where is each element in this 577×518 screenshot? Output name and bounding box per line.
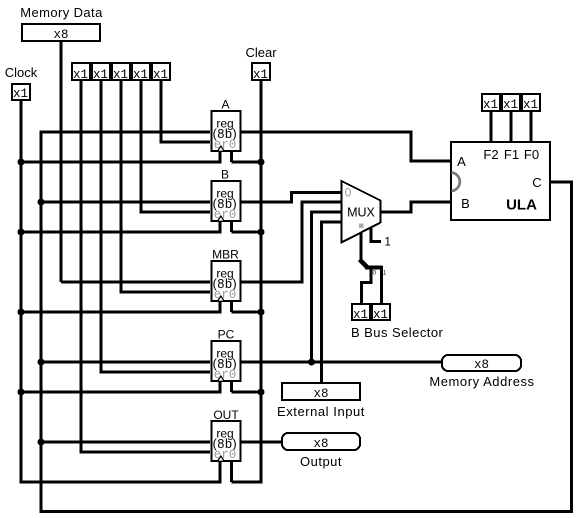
mux B bus xyxy=(342,181,381,243)
input pin B Bus Selector bit0 xyxy=(352,304,370,320)
wire memory data to MBR D xyxy=(61,281,210,284)
svg-text:x1: x1 xyxy=(353,308,368,322)
svg-text:x8: x8 xyxy=(474,358,489,372)
input pin External Input xyxy=(282,383,360,400)
svg-text:External Input: External Input xyxy=(277,404,365,419)
wire MUX select constant stub xyxy=(370,227,373,243)
output pin Output xyxy=(282,433,360,450)
wire result bus to B D xyxy=(41,201,210,204)
junction clear row A xyxy=(258,159,265,166)
splitter S1 leg bit0 xyxy=(370,266,373,284)
svg-text:x8: x8 xyxy=(313,387,328,401)
svg-text:F2: F2 xyxy=(483,147,498,162)
input pin F2 xyxy=(482,94,500,111)
input pin enable B xyxy=(132,63,150,80)
wire F0 pin to ULA xyxy=(530,112,533,141)
svg-text:0: 0 xyxy=(373,270,377,277)
input pin enable A xyxy=(152,63,170,80)
wire clock stub reg OUT xyxy=(219,460,222,484)
input pin enable OUT xyxy=(72,63,90,80)
svg-text:A: A xyxy=(221,97,229,111)
svg-text:x1: x1 xyxy=(503,98,518,112)
wire clock bus row B xyxy=(20,231,221,234)
wire clear stub reg PC xyxy=(230,380,233,392)
svg-text:er0: er0 xyxy=(214,208,237,222)
svg-text:x1: x1 xyxy=(73,68,88,82)
svg-text:0: 0 xyxy=(345,186,352,200)
wire F2 pin to ULA xyxy=(490,112,493,141)
input pin Clock xyxy=(12,84,30,100)
svg-text:er0: er0 xyxy=(214,448,237,462)
input pin enable MBR xyxy=(112,63,130,80)
svg-text:F0: F0 xyxy=(524,147,539,162)
wire clock bus row MBR xyxy=(20,311,221,314)
wire clock stub reg B xyxy=(219,220,222,234)
svg-text:er0: er0 xyxy=(214,288,237,302)
wire ULA C output xyxy=(550,181,573,184)
svg-text:x8: x8 xyxy=(313,437,328,451)
register B clock triangle xyxy=(217,216,224,221)
svg-text:F1: F1 xyxy=(504,147,519,162)
svg-text:er0: er0 xyxy=(214,138,237,152)
wire clock bus row PC xyxy=(20,391,221,394)
wire clock bus row A xyxy=(20,161,221,164)
input pin enable PC xyxy=(92,63,110,80)
svg-text:A: A xyxy=(457,154,466,169)
input pin B Bus Selector bit1 xyxy=(372,304,390,320)
register B box xyxy=(212,181,241,221)
op ULA box xyxy=(451,142,550,220)
input pin F1 xyxy=(502,94,520,111)
splitter S1 diagonal xyxy=(360,260,368,268)
wire F1 pin to ULA xyxy=(510,112,513,141)
svg-text:OUT: OUT xyxy=(213,408,239,422)
wire PC register output to Memory Address xyxy=(240,361,441,364)
wire clock stub reg A xyxy=(219,150,222,164)
splitter S1 trunk from MUX select xyxy=(360,227,363,260)
wire clock stub reg MBR xyxy=(219,300,222,314)
svg-text:x1: x1 xyxy=(483,98,498,112)
wire result bus left vertical xyxy=(40,131,43,514)
svg-text:x1: x1 xyxy=(113,68,128,82)
svg-text:ULA: ULA xyxy=(506,197,537,214)
svg-text:x1: x1 xyxy=(93,68,108,82)
junction clear row MBR xyxy=(258,309,265,316)
svg-text:Clear: Clear xyxy=(245,45,277,60)
wire enable PC from pin 2 xyxy=(100,81,103,374)
wire B register output to MUX input 0 xyxy=(240,201,293,204)
wire PC tap to MUX input 2 xyxy=(310,211,313,363)
register PC clock triangle xyxy=(217,376,224,381)
register OUT box xyxy=(212,421,241,461)
input pin Memory Data xyxy=(22,24,100,41)
junction result bus PC D xyxy=(38,359,45,366)
register MBR clock triangle xyxy=(217,296,224,301)
register A box xyxy=(212,111,241,151)
svg-text:x1: x1 xyxy=(13,87,28,101)
svg-text:Clock: Clock xyxy=(5,65,38,80)
wire clear vertical xyxy=(260,81,263,484)
svg-text:x1: x1 xyxy=(133,68,148,82)
wire MUX output to ULA B xyxy=(381,211,413,214)
svg-text:x1: x1 xyxy=(153,68,168,82)
junction clock row A xyxy=(18,159,25,166)
junction clear row B xyxy=(258,229,265,236)
svg-text:x1: x1 xyxy=(373,308,388,322)
junction result bus OUT D xyxy=(38,439,45,446)
input pin Clear xyxy=(252,63,270,80)
wire clear stub reg B xyxy=(230,220,233,232)
wire OUT register output to Output pin xyxy=(240,441,281,444)
wire External Input to MUX input 3 xyxy=(320,221,323,383)
wire clock stub reg PC xyxy=(219,380,222,394)
wire result bus to OUT D xyxy=(41,441,210,444)
svg-text:C: C xyxy=(532,175,541,190)
ULA unconnected arc xyxy=(452,173,460,192)
svg-text:MBR: MBR xyxy=(212,247,239,261)
wire enable MBR from pin 3 xyxy=(120,81,123,294)
splitter S1 leg bit1 xyxy=(380,266,383,303)
svg-text:x1: x1 xyxy=(253,68,268,82)
svg-text:1: 1 xyxy=(385,237,391,249)
output pin Memory Address xyxy=(442,355,521,371)
junction clock row B xyxy=(18,229,25,236)
splitter S1 bar xyxy=(365,266,383,270)
wire clear stub reg MBR xyxy=(230,300,233,312)
input pin F0 xyxy=(522,94,540,111)
svg-text:1: 1 xyxy=(383,270,387,277)
wire clear stub reg OUT xyxy=(230,460,233,482)
svg-text:x8: x8 xyxy=(53,28,68,42)
junction PC to MUX tap xyxy=(308,359,315,366)
wire enable OUT from pin 1 xyxy=(80,81,83,454)
svg-text:B: B xyxy=(461,196,470,211)
register MBR box xyxy=(212,261,241,301)
wire enable A from pin 5 xyxy=(160,81,163,144)
junction clock row PC xyxy=(18,389,25,396)
wire clock vertical xyxy=(20,101,23,482)
wire result bus right vertical xyxy=(570,181,573,514)
wire A register output to ULA A xyxy=(240,131,413,134)
svg-text:Memory Address: Memory Address xyxy=(429,374,534,389)
wire enable B from pin 4 xyxy=(140,81,143,214)
svg-text:x1: x1 xyxy=(523,98,538,112)
svg-text:B Bus Selector: B Bus Selector xyxy=(351,325,444,340)
junction clear row PC xyxy=(258,389,265,396)
wire memory data vertical xyxy=(60,42,63,282)
wire MBR register output to MUX input 1 xyxy=(240,281,304,284)
junction clock row MBR xyxy=(18,309,25,316)
svg-text:PC: PC xyxy=(218,327,235,341)
wire result bus to PC D xyxy=(41,361,210,364)
wire result bus to A D xyxy=(41,131,210,134)
register PC box xyxy=(212,341,241,381)
svg-text:er0: er0 xyxy=(214,368,237,382)
mux select marker xyxy=(359,224,364,229)
svg-text:Output: Output xyxy=(300,454,342,469)
svg-text:MUX: MUX xyxy=(347,206,375,220)
wire result bus bottom xyxy=(40,510,574,513)
register A clock triangle xyxy=(217,146,224,151)
junction result bus B D xyxy=(38,199,45,206)
wire clear stub reg A xyxy=(230,150,233,162)
wire clock bus row OUT xyxy=(20,481,221,484)
svg-text:Memory Data: Memory Data xyxy=(20,5,103,20)
svg-text:B: B xyxy=(221,167,229,181)
register OUT clock triangle xyxy=(217,456,224,461)
